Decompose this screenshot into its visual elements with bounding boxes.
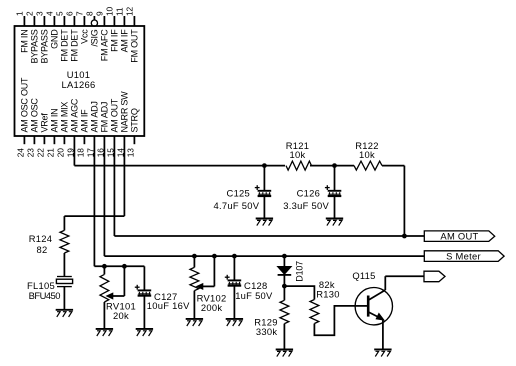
svg-text:FM IF: FM IF xyxy=(109,29,119,52)
pin 16 FM ADJ (bottom stub + number + label) xyxy=(95,102,109,157)
pin 5 FM DET (top stub + number + label) xyxy=(55,11,70,62)
svg-text:AM OSC OUT: AM OSC OUT xyxy=(19,77,29,133)
wire pin19 AM AGC down xyxy=(73,146,75,166)
wire C128 top xyxy=(233,256,235,280)
wire C126 top xyxy=(334,166,336,191)
ground C125 xyxy=(256,219,273,226)
svg-text:AM IF: AM IF xyxy=(119,29,129,53)
pin 17 AM ADJ (bottom stub + number + label) xyxy=(85,101,99,157)
svg-text:21: 21 xyxy=(45,148,55,157)
svg-text:AM AGC: AM AGC xyxy=(69,98,79,132)
capacitor C126 xyxy=(325,185,341,196)
pin 6 FM DET (top stub + number + label) xyxy=(65,11,80,62)
svg-text:2: 2 xyxy=(25,11,35,16)
Q115 emitter arrowhead xyxy=(376,313,384,320)
svg-text:BFU450: BFU450 xyxy=(29,290,61,301)
svg-text:20k: 20k xyxy=(113,310,129,321)
wire pin16 FM ADJ down xyxy=(103,146,105,256)
wire pin17 row to C127 xyxy=(94,265,144,267)
svg-text:C125: C125 xyxy=(227,187,251,198)
connector collector output (unlabeled) xyxy=(424,271,445,282)
wire RV102 wiper horizontal xyxy=(202,285,214,287)
ground RV102 xyxy=(186,319,203,326)
svg-text:200k: 200k xyxy=(201,302,222,313)
pin 11 AM IF (top stub + number + label) xyxy=(115,7,130,52)
pin 4 GND (top stub + number + label) xyxy=(45,11,60,49)
svg-text:FM DET: FM DET xyxy=(59,29,69,62)
pin 20 AM MIX (bottom stub + number + label) xyxy=(55,102,69,158)
wire RV101 wiper horizontal xyxy=(112,295,124,297)
Q115 emitter diagonal xyxy=(368,312,383,320)
pin 7 Vcc (top stub + number + label) xyxy=(75,11,90,44)
svg-text:8: 8 xyxy=(85,11,95,16)
svg-text:BYPASS: BYPASS xyxy=(29,29,39,63)
capacitor C125 xyxy=(255,185,271,196)
connector S Meter xyxy=(424,251,504,262)
pin 18 AM IF (bottom stub + number + label) xyxy=(75,109,89,157)
resistor R122 xyxy=(354,161,382,170)
wire R129 bottom xyxy=(283,324,285,350)
svg-text:10uF 16V: 10uF 16V xyxy=(147,300,190,311)
wire pin14 row to R124 xyxy=(64,215,124,217)
svg-text:10k: 10k xyxy=(290,149,306,160)
node RV101 wiper feed xyxy=(122,264,127,269)
potentiometer RV101 xyxy=(100,274,109,302)
wire RV101 bottom xyxy=(103,302,105,329)
wire corner down to AM OUT node xyxy=(403,166,405,236)
svg-text:FM OUT: FM OUT xyxy=(129,29,139,63)
svg-text:13: 13 xyxy=(125,148,135,157)
Q115 collector diagonal xyxy=(368,290,385,300)
wire D107 anode xyxy=(283,256,285,266)
svg-text:4.7uF 50V: 4.7uF 50V xyxy=(214,200,260,211)
wire S Meter row xyxy=(104,255,424,257)
resistor R121 xyxy=(286,161,312,170)
ground C126 xyxy=(326,219,343,226)
svg-text:Vcc: Vcc xyxy=(79,29,89,44)
Q115 base wire xyxy=(355,305,368,307)
wire pin17 AM ADJ down xyxy=(93,146,95,266)
wire RV101 top xyxy=(103,266,105,274)
pin 22 VRef (bottom stub + number + label) xyxy=(35,113,49,158)
svg-text:AM MIX: AM MIX xyxy=(59,102,69,133)
svg-text:10k: 10k xyxy=(359,149,375,160)
pin 15 AM OUT (bottom stub + number + label) xyxy=(105,98,119,157)
svg-text:4: 4 xyxy=(45,11,55,16)
node C125 junction xyxy=(262,163,267,168)
Q115 collector wire up xyxy=(384,276,386,290)
wire RV102 bottom xyxy=(193,291,195,319)
resistor R129 xyxy=(280,300,289,323)
wire C127 bottom xyxy=(143,296,145,329)
svg-text:NARR SW: NARR SW xyxy=(119,91,129,133)
svg-text:R130: R130 xyxy=(316,288,340,299)
pin 3 BYPASS (top stub + number + label) xyxy=(35,11,50,64)
svg-text:11: 11 xyxy=(115,7,125,16)
Q115 collector wire right xyxy=(385,275,424,277)
ground C128 xyxy=(226,319,243,326)
svg-text:9: 9 xyxy=(95,11,105,16)
potentiometer RV102 xyxy=(190,267,199,290)
filter FL105 xyxy=(56,277,72,287)
node RV102 top xyxy=(192,254,197,259)
wire R124-FL105 xyxy=(63,253,65,277)
RV101 wiper arrow xyxy=(107,293,113,299)
svg-text:Q115: Q115 xyxy=(352,270,375,281)
pin 21 AM IN (bottom stub + number + label) xyxy=(45,109,59,158)
wire FL105-ground xyxy=(63,287,65,310)
svg-text:1: 1 xyxy=(15,11,25,16)
svg-text:AM OSC: AM OSC xyxy=(29,98,39,133)
svg-text:24: 24 xyxy=(15,148,25,157)
svg-text:BYPASS: BYPASS xyxy=(39,29,49,63)
node AM OUT junction xyxy=(402,234,407,239)
pin 1 FM IN (top stub + number + label) xyxy=(15,11,30,53)
pin 19 AM AGC (bottom stub + number + label) xyxy=(65,98,79,157)
wire RV102 top xyxy=(193,256,195,267)
wire C125 bottom xyxy=(263,196,265,218)
node C126 junction xyxy=(332,163,337,168)
svg-text:AM IF: AM IF xyxy=(79,109,89,133)
svg-text:LA1266: LA1266 xyxy=(61,79,95,90)
svg-text:FM IN: FM IN xyxy=(19,30,29,53)
svg-text:FL105: FL105 xyxy=(27,280,55,291)
wire R130 top xyxy=(284,286,314,299)
svg-text:AM ADJ: AM ADJ xyxy=(89,101,99,132)
pin 23 AM OSC (bottom stub + number + label) xyxy=(25,98,39,158)
ground RV101 xyxy=(96,329,113,336)
svg-text:AM IN: AM IN xyxy=(49,109,59,133)
wire R130 bottom jog xyxy=(314,306,355,335)
wire pin19 bus to R121 xyxy=(74,165,285,167)
wire RV102 wiper vertical xyxy=(213,256,215,286)
node D107 top xyxy=(282,254,287,259)
resistor R124 xyxy=(60,230,69,253)
wire AM OUT row xyxy=(114,235,424,237)
svg-text:S Meter: S Meter xyxy=(446,250,481,261)
wire R124 top xyxy=(63,216,65,230)
ground R129 xyxy=(276,350,293,357)
wire C126 bottom xyxy=(334,196,336,218)
Q115 base bar xyxy=(367,296,370,317)
svg-text:23: 23 xyxy=(25,148,35,157)
svg-text:7: 7 xyxy=(75,11,85,16)
pin 9 FM AFC (top stub + number + label) xyxy=(95,11,110,61)
diode D107 triangle xyxy=(278,267,292,275)
capacitor C127 xyxy=(135,285,151,296)
IC U101 LA1266 body xyxy=(15,26,145,136)
svg-text:82: 82 xyxy=(37,244,48,255)
svg-text:C126: C126 xyxy=(297,187,321,198)
svg-text:FM AFC: FM AFC xyxy=(99,29,109,61)
pin 8 /SIG (top stub + number + label) xyxy=(85,11,100,47)
wire pin14 NARR SW down xyxy=(123,146,125,216)
ground FL105 xyxy=(56,310,73,317)
pin 12 FM OUT (top stub + number + label) xyxy=(125,7,140,63)
wire R121-R122 xyxy=(310,165,354,167)
transistor Q115 circle xyxy=(355,288,392,325)
svg-text:3: 3 xyxy=(35,11,45,16)
pin 2 BYPASS (top stub + number + label) xyxy=(25,11,40,64)
capacitor C128 xyxy=(225,275,241,286)
diode D107 cathode bar xyxy=(278,274,292,276)
svg-text:12: 12 xyxy=(125,7,135,16)
svg-text:22: 22 xyxy=(35,148,45,157)
svg-text:330k: 330k xyxy=(256,326,277,337)
svg-text:AM OUT: AM OUT xyxy=(109,98,119,132)
svg-text:D107: D107 xyxy=(295,261,305,282)
pin 13 STRQ (bottom stub + number + label) xyxy=(125,108,139,157)
svg-text:20: 20 xyxy=(55,148,65,157)
svg-text:3.3uF 50V: 3.3uF 50V xyxy=(283,200,329,211)
wire R129 top xyxy=(283,286,285,300)
wire pin15 AM OUT down xyxy=(113,146,115,236)
wire C127 top xyxy=(143,266,145,290)
ground Q115 xyxy=(374,349,391,356)
svg-text:AM OUT: AM OUT xyxy=(440,230,478,241)
node RV101 top xyxy=(102,264,107,269)
pin 14 NARR SW (bottom stub + number + label) xyxy=(115,91,129,157)
wire R122 to corner xyxy=(382,165,404,167)
svg-text:18: 18 xyxy=(75,148,85,157)
resistor R130 xyxy=(310,300,319,324)
connector AM OUT xyxy=(424,231,494,242)
svg-text:FM DET: FM DET xyxy=(69,29,79,62)
node C128 top xyxy=(232,254,237,259)
wire C128 bottom xyxy=(233,286,235,319)
node RV102 wiper feed xyxy=(212,254,217,259)
svg-text:5: 5 xyxy=(55,11,65,16)
svg-text:1uF 50V: 1uF 50V xyxy=(235,290,273,301)
node D107 bottom junction xyxy=(282,284,287,289)
RV102 wiper arrow xyxy=(197,284,203,290)
svg-text:6: 6 xyxy=(65,11,75,16)
svg-text:GND: GND xyxy=(49,29,59,49)
pin 10 FM IF (top stub + number + label) xyxy=(105,7,120,52)
svg-text:STRQ: STRQ xyxy=(129,108,139,132)
wire RV101 wiper vertical xyxy=(123,266,125,296)
svg-text:10: 10 xyxy=(105,7,115,16)
pin 24 AM OSC OUT (bottom stub + number + label) xyxy=(15,77,29,157)
svg-text:/SIG: /SIG xyxy=(89,29,99,46)
wire D107 cathode xyxy=(283,275,285,286)
wire C125 top xyxy=(263,166,265,191)
svg-text:VRef: VRef xyxy=(39,113,49,133)
svg-text:R124: R124 xyxy=(29,233,53,244)
svg-text:FM ADJ: FM ADJ xyxy=(99,102,109,133)
Q115 emitter wire down xyxy=(382,319,384,349)
ground C127 xyxy=(136,329,153,336)
